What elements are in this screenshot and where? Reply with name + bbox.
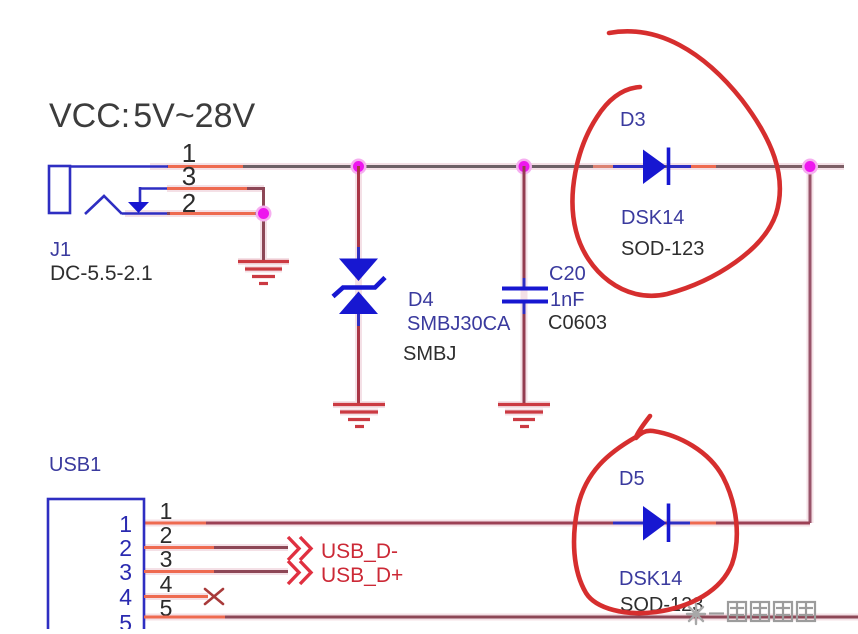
diode D3 lead left blue [613,165,644,168]
ground J1 [238,262,289,284]
ground C20 [498,405,550,427]
diode D3 [643,148,669,186]
wire top rail highlight J1 side [167,165,243,168]
svg-text:1: 1 [119,511,132,537]
svg-text:D4: D4 [408,289,434,311]
wire top rail highlight right of D3 [691,165,716,168]
annotation circle around D3 [573,31,780,295]
wire J1 pin3 [167,187,265,190]
wire USB pin5 highlight [144,616,225,619]
svg-text:USB_D-: USB_D- [321,540,398,563]
wire USB pin2 (USB_D-) [144,546,288,549]
wire glow halos (jpeg bloom) [125,166,858,617]
svg-text:DSK14: DSK14 [619,568,682,590]
connector USB1 body [48,499,144,634]
svg-text:SOD-123: SOD-123 [621,238,704,260]
node junction dot J1 pin2/pin3 [256,206,272,222]
wire USB pin3 (USB_D+) [144,570,288,573]
wire USB pin4 stub [144,595,208,598]
wire J1 ground drop [262,213,265,262]
sheet entry chevron USB_D- [288,537,311,560]
watermark text 一硬件家园 [709,602,815,621]
svg-text:4: 4 [160,571,173,597]
no-connect X on pin4 [205,589,223,604]
sheet entry chevron USB_D+ [288,561,311,584]
annotation circle around D5 [574,416,737,613]
svg-text:3: 3 [119,559,132,585]
svg-text:SMBJ30CA: SMBJ30CA [407,313,511,335]
svg-text:C0603: C0603 [548,312,607,334]
wire C20 top [523,166,526,289]
wire D4 bottom lead blue [357,313,360,326]
J1 pin3 lead [140,187,168,190]
J1 sleeve line [122,212,170,215]
node junction dot C20 [516,159,532,175]
node junction dot right bus [802,159,818,175]
svg-text:J1: J1 [50,239,71,261]
svg-text:VCC:5V~28V: VCC:5V~28V [49,97,255,135]
wire top rail VCC [167,165,844,168]
svg-text:D5: D5 [619,468,645,490]
svg-text:3: 3 [182,161,196,191]
wire bottom rail highlight near USB [144,522,206,525]
wire vertical right bus x=810 [809,167,812,524]
diode D5 [643,504,669,543]
svg-text:USB_D+: USB_D+ [321,564,403,587]
wire USB pin3 highlight [144,570,214,573]
svg-text:2: 2 [160,522,173,548]
svg-text:5: 5 [119,610,132,629]
svg-text:D3: D3 [620,109,646,131]
svg-text:USB1: USB1 [49,454,101,476]
wire C20 bottom lead blue [523,302,526,314]
svg-text:4: 4 [119,584,132,610]
J1 pin1 lead [70,165,168,168]
wire bottom rail highlight right of D5 [690,522,716,525]
wire top rail highlight left of D3 [593,165,616,168]
wire bottom rail USB pin1 to D5 to bus [144,522,810,525]
svg-text:1nF: 1nF [550,289,584,311]
wire J1 pin2 highlight [170,212,255,215]
svg-text:C20: C20 [549,263,586,285]
wire D4 top lead blue [357,247,360,260]
svg-text:2: 2 [182,188,196,218]
node junction dot D4 [351,159,367,175]
wire D4 top [357,166,360,259]
wire USB pin5 / bottom line [144,616,858,619]
watermark logo [687,604,705,624]
wire J1 pin3 highlight [167,187,247,190]
svg-text:3: 3 [160,546,173,572]
svg-text:1: 1 [160,498,173,524]
J1 tip contact zigzag [85,196,122,214]
diode D3 lead right blue [668,165,691,168]
svg-text:DC-5.5-2.1: DC-5.5-2.1 [50,262,153,285]
svg-text:SMBJ: SMBJ [403,343,456,365]
connector J1 barrel body [49,166,70,213]
capacitor C20 [502,289,548,302]
wire D4 bottom [357,313,360,404]
diode D5 lead left blue [613,522,644,525]
diode D5 lead right blue [668,522,690,525]
wire J1 pin3 drop [262,189,265,214]
svg-text:DSK14: DSK14 [621,207,684,229]
wire J1 pin2 [167,212,263,215]
wire C20 top lead blue [523,278,526,289]
wire top rail rosy right part [716,165,844,168]
ground D4 [333,405,385,427]
J1 switch arrow [128,202,149,213]
wire USB pin2 highlight [144,546,214,549]
wire C20 bottom [523,302,526,404]
J1 switch stem [139,187,142,202]
svg-text:2: 2 [119,535,132,561]
TVS diode D4 [333,259,385,315]
